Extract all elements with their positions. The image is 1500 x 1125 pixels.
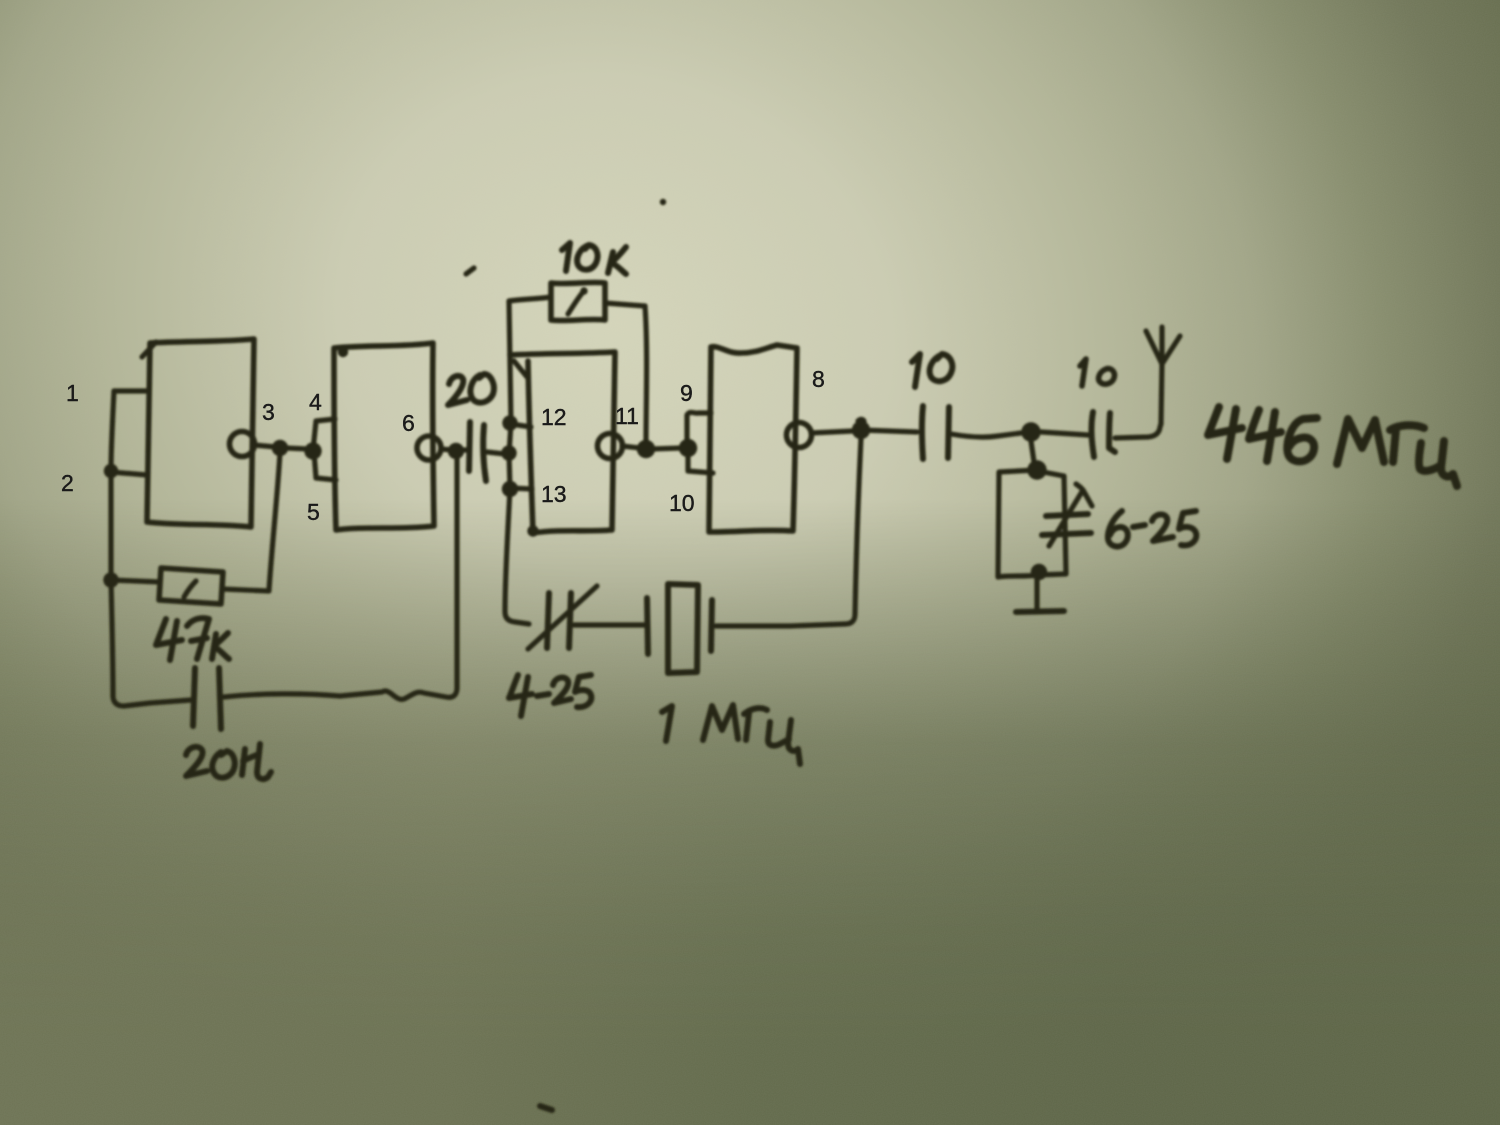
capacitor C2 20 right plate (483, 425, 486, 481)
inverter bubble U2 output (417, 436, 441, 460)
node 4 dot (304, 442, 321, 459)
pin 9 stub wire (687, 412, 711, 444)
node dot pin2 (104, 464, 118, 478)
C4 loop (998, 470, 1066, 577)
wire pin11 (622, 446, 681, 449)
node dot pin12 (502, 415, 517, 430)
pin 10 stub wire (688, 452, 713, 473)
svg-text:11: 11 (615, 403, 639, 429)
node dot antenna tee (1021, 422, 1040, 441)
bottom rail wire (224, 455, 457, 699)
handwritten 446 MHz label (1208, 407, 1457, 486)
wire pin8 out (811, 431, 853, 433)
node dot C4 top (1027, 460, 1046, 479)
svg-text:2: 2 (61, 470, 74, 496)
resistor R2 10k loop left (509, 297, 551, 301)
node dot pin13 (502, 481, 518, 497)
handwritten 6-25 label (1108, 511, 1196, 546)
handwritten 10 label right (1080, 359, 1114, 386)
svg-text:6: 6 (402, 410, 415, 436)
inverter bubble U4 output (787, 423, 812, 448)
C5 left plate (922, 406, 923, 459)
gate U4 box (709, 345, 797, 532)
R2 right lead (605, 303, 645, 306)
tick at U1 top-left (142, 342, 156, 357)
svg-text:12: 12 (541, 404, 567, 430)
gate U2 box (334, 343, 434, 530)
pin 1 stub wire (114, 388, 148, 393)
R1 right lead (222, 589, 269, 591)
crystal X1 body (668, 584, 698, 673)
node 3 dot (272, 440, 288, 456)
handwritten 47k label (156, 618, 229, 660)
C5 right plate (948, 407, 949, 458)
pin 4 stub wire (313, 419, 335, 450)
node dot cap tap (501, 445, 516, 460)
U2 top-left blob (338, 347, 348, 357)
ink layer (103, 199, 1457, 1110)
C4 plates (1042, 514, 1091, 535)
pin 12 stub wire (511, 424, 531, 427)
wire pin6 out (441, 449, 452, 450)
node dot after U2 (448, 443, 464, 459)
trimmer C3 4-25 right plate (569, 593, 571, 648)
R1 left lead (111, 580, 160, 582)
R2 loop right vertical (645, 306, 647, 442)
svg-text:13: 13 (541, 481, 567, 507)
resistor R1 47k body (159, 568, 223, 604)
crystal X1 left bar (647, 598, 648, 654)
inverter bubble U1 output (230, 432, 255, 457)
node8 vertical wire down (716, 438, 861, 626)
C3 arrow (528, 586, 597, 649)
svg-text:1: 1 (66, 380, 79, 406)
handwritten 4-25 label (509, 675, 591, 716)
resistor R2 10k body (551, 282, 605, 320)
capacitor C5 10 wires (861, 430, 1021, 437)
capacitor C2 20 left plate (469, 422, 470, 471)
pin 2 stub wire (111, 472, 147, 475)
crystal X1 left lead (574, 622, 645, 627)
svg-text:4: 4 (309, 389, 322, 415)
handwritten 1MHz label (662, 705, 800, 764)
pin 13 stub wire (510, 488, 532, 489)
C6 left plate (1091, 412, 1094, 457)
left rail wire (111, 391, 191, 706)
handwritten 10k label (562, 243, 626, 274)
svg-text:3: 3 (262, 399, 275, 425)
speck top (660, 199, 666, 205)
speck dash (466, 268, 474, 274)
U3 bottom-left blob (527, 525, 538, 536)
capacitor C6 10 wires (1041, 424, 1161, 438)
inverter bubble U3 output (598, 434, 623, 459)
gate U3 box (510, 352, 615, 533)
wire node3 down to 47k (269, 452, 280, 590)
node dot 10k join (637, 440, 655, 458)
gate U1 box (147, 339, 254, 527)
handwritten 20n label (186, 744, 271, 779)
C2 wires (458, 450, 505, 454)
antenna (1146, 327, 1180, 424)
node dot pin9/10 (679, 439, 697, 457)
node dot C4 bottom (1031, 564, 1047, 580)
R1 slash (184, 581, 196, 597)
speck bottom (540, 1106, 552, 1110)
C6 right plate (1109, 413, 1115, 452)
handwritten 20 label (448, 374, 494, 405)
crystal X1 right bar (711, 600, 712, 651)
capacitor C1 20n right plate (219, 668, 221, 729)
ground symbol (1034, 577, 1039, 610)
capacitor C1 20n left plate (193, 668, 195, 726)
trimmer C3 4-25 left plate (547, 593, 549, 648)
svg-text:9: 9 (680, 380, 693, 406)
svg-text:5: 5 (307, 499, 320, 525)
C4 arrow (1049, 484, 1092, 546)
wire pin3 (254, 445, 308, 449)
node dot 47k tap (103, 572, 118, 587)
pin 5 stub wire (314, 452, 336, 480)
handwritten 10 label left (912, 354, 952, 387)
trimmer C4 6-25 stem from node (1031, 441, 1034, 462)
svg-text:8: 8 (812, 366, 825, 392)
U3 corner tick (514, 361, 527, 377)
typed pin number labels (61, 366, 825, 525)
R2 slash (568, 292, 583, 314)
node 8 dot (852, 421, 870, 439)
vertical net wire W1 (505, 301, 529, 624)
svg-text:10: 10 (669, 490, 695, 516)
